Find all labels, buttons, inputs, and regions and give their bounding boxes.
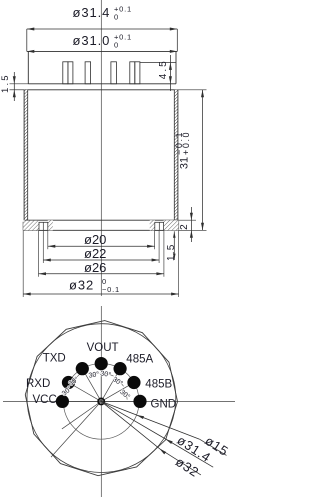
svg-text:1.5: 1.5 [0,73,11,93]
dimension line Ø31.4 [27,28,178,52]
cap left side [27,51,29,83]
svg-text:485A: 485A [126,353,153,365]
label GND [151,398,177,410]
groove right [155,222,164,230]
svg-text:−0.1: −0.1 [102,285,120,294]
label VCC [33,394,57,406]
inner ledge line (right) [140,61,176,63]
flange hatch right [150,220,179,230]
dimension text Ø31.0 +0.1/0 [73,33,133,50]
vent slot group S1 (double) [63,62,73,84]
leader Ø31.4 [101,401,214,467]
svg-text:ø26: ø26 [84,260,106,275]
svg-text:ø20: ø20 [84,232,106,247]
dimension Ø32 0/-0.1 [23,277,178,296]
vent slot S3 [111,62,117,84]
svg-text:−0.1: −0.1 [174,131,184,155]
dimension Ø26 [39,260,164,276]
centerline side view [100,0,102,296]
body right wall (hatched) [174,90,178,220]
pin VOUT [95,357,108,370]
svg-text:TXD: TXD [43,352,66,364]
svg-text:GND: GND [151,398,177,410]
ray extensions lower-left [51,401,101,457]
dimension 4.5 [158,55,172,91]
svg-text:485B: 485B [145,379,172,391]
body left wall (hatched) [24,90,28,220]
label 485A [126,353,153,365]
svg-text:RXD: RXD [26,378,50,390]
svg-text:0: 0 [114,41,118,50]
inner circle Ø31.4 [27,324,176,473]
label 485B [145,379,172,391]
bottom view vertical centerline [100,306,102,497]
svg-text:ø31.0: ø31.0 [73,33,111,48]
cap bottom line [28,83,176,85]
dimension Ø20 [48,232,155,248]
vent slot S2 [85,62,91,84]
pin VCC [56,395,69,408]
dimension 1.5 (right) [166,231,177,261]
bottom flange outline [23,220,178,230]
leader Ø15 [101,401,231,459]
pin RXD [62,376,75,389]
pin GND [133,395,146,408]
bottom view horizontal centerline [3,401,235,403]
dimension 2 (flange) [179,207,207,242]
body top line [24,89,178,91]
rays to pins [63,364,139,402]
pin bolt circle Ø15 [63,364,139,440]
label TXD [43,352,66,364]
dimension text Ø31.4 +0.1/0 [73,5,133,22]
extension lines bottom dims [23,230,178,297]
cap right side [175,51,177,83]
svg-text:VCC: VCC [33,394,57,406]
dimension Ø22 [43,246,159,262]
center ring [98,398,104,404]
leader Ø32 [101,401,202,480]
svg-text:1.5: 1.5 [166,243,177,261]
svg-text:VOUT: VOUT [87,342,119,354]
cap top edge / dimension line Ø31.0 [27,50,178,53]
groove left [39,222,48,230]
vent slot group S4 (double) [130,62,140,84]
label VOUT [87,342,119,354]
pin 485A [114,362,127,375]
svg-text:ø31.4: ø31.4 [73,5,111,20]
dimension 31 +0.0/-0.1 [174,90,207,231]
pin 485B [127,376,140,389]
label RXD [26,378,50,390]
svg-text:31: 31 [179,157,191,169]
flange hatch left [23,220,53,230]
svg-text:ø22: ø22 [84,246,106,261]
outer polygon Ø32 [25,321,177,476]
svg-text:0: 0 [114,13,118,22]
svg-text:4.5: 4.5 [158,59,169,79]
dimension 1.5 (left) [0,72,28,101]
30-degree angle labels [60,369,132,401]
angle dimension arcs [65,373,127,400]
svg-text:ø32: ø32 [69,278,94,293]
svg-text:2: 2 [179,224,190,230]
pin TXD [76,362,89,375]
